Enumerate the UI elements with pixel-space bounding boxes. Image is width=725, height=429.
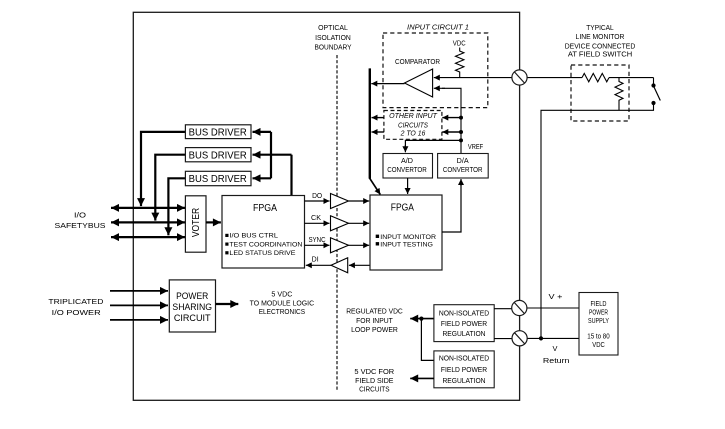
svg-text:V +: V + — [549, 292, 563, 301]
svg-text:5 VDC FOR: 5 VDC FOR — [354, 369, 394, 376]
I/O SAFETYBUS label — [55, 213, 106, 230]
triplicated I/O power label — [48, 299, 103, 317]
wire fpga feed to bus drivers 1 and 3 — [270, 132, 272, 178]
svg-text:CK: CK — [311, 215, 321, 222]
svg-text:V: V — [553, 344, 558, 353]
svg-text:DI: DI — [312, 257, 319, 264]
svg-text:5 VDC: 5 VDC — [271, 292, 292, 299]
svg-text:TEST COORDINATION: TEST COORDINATION — [229, 241, 302, 248]
power sharing circuit box — [169, 280, 215, 332]
wire DO fpga1 to buffer — [305, 200, 330, 202]
feedthrough terminal V return — [512, 331, 527, 346]
wire DI fpga2 to buffer — [349, 264, 370, 266]
svg-text:REGULATION: REGULATION — [442, 378, 485, 385]
other input circuits dashed box — [384, 111, 442, 140]
safetybus line 2 — [111, 221, 185, 223]
wire power sharing output — [216, 303, 239, 305]
svg-text:POWER: POWER — [176, 291, 208, 302]
svg-text:NON-ISOLATED: NON-ISOLATED — [439, 356, 489, 363]
svg-text:CIRCUITS: CIRCUITS — [398, 122, 428, 129]
svg-text:VDC: VDC — [592, 342, 605, 349]
svg-text:I/O POWER: I/O POWER — [52, 310, 101, 317]
bus driver B2 box — [185, 148, 251, 162]
svg-text:TRIPLICATED: TRIPLICATED — [48, 299, 103, 306]
non-isolated regulator 2 box — [434, 351, 494, 388]
safetybus line 1 — [111, 207, 185, 209]
svg-text:ISOLATION: ISOLATION — [315, 35, 351, 42]
svg-text:DO: DO — [312, 193, 323, 200]
wire voter to fpga U1 — [206, 221, 221, 223]
wire regulator 1 output — [410, 318, 434, 320]
non-isolated regulator 1 box — [434, 305, 494, 342]
wire vref line to A/D convertor — [405, 140, 461, 147]
svg-text:FOR INPUT: FOR INPUT — [356, 318, 393, 325]
wire regulator 2 output — [410, 377, 434, 379]
wire bus driver 3 to safetybus line 3 — [168, 178, 185, 231]
svg-text:VOTER: VOTER — [191, 208, 202, 237]
wire fpga top to bus driver 2 — [290, 155, 292, 196]
junction dot V return — [539, 336, 543, 340]
svg-text:LED STATUS DRIVE: LED STATUS DRIVE — [229, 250, 296, 257]
svg-text:CONVERTOR: CONVERTOR — [443, 167, 483, 174]
wire comparator input 1 from terminal — [434, 77, 512, 79]
svg-text:VREF: VREF — [468, 144, 483, 151]
svg-text:ELECTRONICS: ELECTRONICS — [259, 309, 306, 316]
svg-text:POWER: POWER — [589, 310, 608, 317]
wires triplicated power in — [110, 290, 168, 292]
buffer CK — [331, 216, 349, 231]
5 VDC to module logic label — [250, 292, 314, 316]
other input circuits label — [389, 113, 438, 137]
feedthrough terminal top — [512, 70, 527, 85]
5 VDC field side label — [354, 369, 394, 394]
typical line monitor label — [565, 25, 636, 59]
wire comparator input 2 from vref line — [442, 88, 461, 153]
svg-text:REGULATED VDC: REGULATED VDC — [346, 309, 403, 316]
svg-text:TYPICAL: TYPICAL — [586, 25, 614, 32]
wire SYNC fpga1 to buffer — [305, 244, 330, 246]
field power supply box — [579, 293, 618, 356]
field switch — [653, 78, 655, 84]
svg-text:CONVERTOR: CONVERTOR — [387, 167, 427, 174]
svg-text:FIELD: FIELD — [591, 301, 607, 308]
svg-text:BOUNDARY: BOUNDARY — [315, 45, 352, 52]
svg-text:COMPARATOR: COMPARATOR — [395, 59, 440, 66]
resistor VDC pull-up — [456, 48, 464, 78]
junction dot regulator output — [419, 317, 423, 321]
svg-text:INPUT CIRCUIT 1: INPUT CIRCUIT 1 — [407, 25, 469, 32]
buffer DI — [331, 258, 348, 273]
svg-text:SHARING: SHARING — [172, 302, 212, 313]
svg-text:NON-ISOLATED: NON-ISOLATED — [439, 311, 489, 318]
safetybus line 3 — [111, 236, 185, 238]
svg-text:BUS DRIVER: BUS DRIVER — [189, 127, 247, 138]
svg-text:FIELD POWER: FIELD POWER — [441, 321, 487, 328]
svg-text:2 TO 16: 2 TO 16 — [400, 131, 426, 138]
comparator triangle — [405, 69, 433, 97]
wire terminal to field switch — [527, 77, 582, 79]
wires other inputs to bus line — [372, 117, 384, 119]
junction dots on vref line — [459, 116, 463, 120]
svg-text:BUS DRIVER: BUS DRIVER — [189, 150, 247, 161]
wire regulator 1 to V+ terminal — [494, 308, 513, 310]
wire comparator output — [371, 83, 404, 85]
D/A convertor box — [438, 154, 489, 179]
svg-text:I/O: I/O — [74, 213, 87, 220]
wire CK buffer to fpga2 — [349, 222, 370, 224]
svg-text:D/A: D/A — [457, 158, 469, 165]
svg-text:LOOP POWER: LOOP POWER — [351, 327, 398, 334]
module enclosure box — [133, 12, 519, 400]
svg-text:INPUT MONITOR: INPUT MONITOR — [380, 234, 436, 241]
svg-text:INPUT TESTING: INPUT TESTING — [380, 241, 433, 248]
wire fpga2 to D/A — [442, 182, 461, 232]
wire V return terminal to field supply — [527, 337, 579, 339]
feedthrough terminal V+ — [512, 300, 527, 315]
wire DO buffer to fpga2 — [349, 200, 370, 202]
svg-text:SYNC: SYNC — [308, 237, 325, 244]
svg-text:REGULATION: REGULATION — [442, 331, 485, 338]
wires vref line into other inputs — [442, 117, 461, 119]
svg-text:LINE MONITOR: LINE MONITOR — [576, 34, 625, 41]
svg-text:DEVICE CONNECTED: DEVICE CONNECTED — [565, 43, 636, 50]
svg-text:TO MODULE LOGIC: TO MODULE LOGIC — [250, 300, 314, 307]
buffer SYNC — [331, 238, 349, 253]
wire SYNC buffer to fpga2 — [349, 244, 370, 246]
svg-text:BUS DRIVER: BUS DRIVER — [189, 174, 247, 185]
svg-text:AT FIELD SWITCH: AT FIELD SWITCH — [568, 52, 632, 59]
wire CK fpga1 to buffer — [305, 222, 330, 224]
svg-text:VDC: VDC — [453, 40, 466, 47]
wire V+ terminal to field supply — [527, 307, 579, 309]
svg-text:FPGA: FPGA — [391, 202, 414, 213]
svg-text:FIELD SIDE: FIELD SIDE — [355, 378, 394, 385]
optical isolation boundary dashed line — [336, 55, 338, 390]
optical isolation boundary label — [315, 25, 352, 51]
svg-text:I/O BUS CTRL: I/O BUS CTRL — [229, 233, 278, 240]
wire DI buffer to fpga1 — [306, 264, 331, 266]
svg-text:FPGA: FPGA — [253, 203, 277, 214]
svg-text:CIRCUITS: CIRCUITS — [359, 387, 390, 394]
wire bus driver 1 to safetybus line 1 — [141, 132, 185, 201]
bus driver B3 box — [185, 171, 251, 185]
svg-text:A/D: A/D — [401, 158, 413, 165]
svg-text:FIELD POWER: FIELD POWER — [441, 367, 487, 374]
svg-text:15 to 80: 15 to 80 — [587, 333, 610, 340]
svg-text:SUPPLY: SUPPLY — [588, 318, 609, 325]
svg-text:OPTICAL: OPTICAL — [318, 25, 348, 32]
wire regulator 1 to regulator 2 — [421, 319, 434, 361]
voter box — [185, 196, 206, 252]
regulated VDC label — [346, 309, 403, 334]
input bus vertical line to fpga2 — [369, 68, 371, 178]
fpga U1 box — [222, 196, 305, 269]
resistor shunt line monitor — [615, 78, 623, 111]
svg-text:CIRCUIT: CIRCUIT — [174, 313, 211, 324]
bus driver B1 box — [185, 125, 251, 139]
wire bus driver 2 to safetybus line 2 — [155, 155, 185, 216]
svg-text:SAFETYBUS: SAFETYBUS — [55, 223, 106, 230]
svg-text:Return: Return — [543, 356, 570, 365]
wire A/D to fpga2 — [407, 178, 409, 194]
wire regulator 1 to V return terminal — [494, 338, 513, 340]
buffer DO — [331, 194, 349, 209]
A/D convertor box — [383, 154, 433, 179]
line monitor dashed box — [571, 65, 629, 121]
V return label — [543, 344, 570, 365]
svg-text:OTHER INPUT: OTHER INPUT — [389, 113, 438, 120]
resistor series line monitor — [582, 73, 609, 81]
wire field switch return — [541, 105, 654, 337]
fpga U2 box — [370, 195, 442, 270]
input circuit 1 dashed box — [383, 33, 488, 108]
